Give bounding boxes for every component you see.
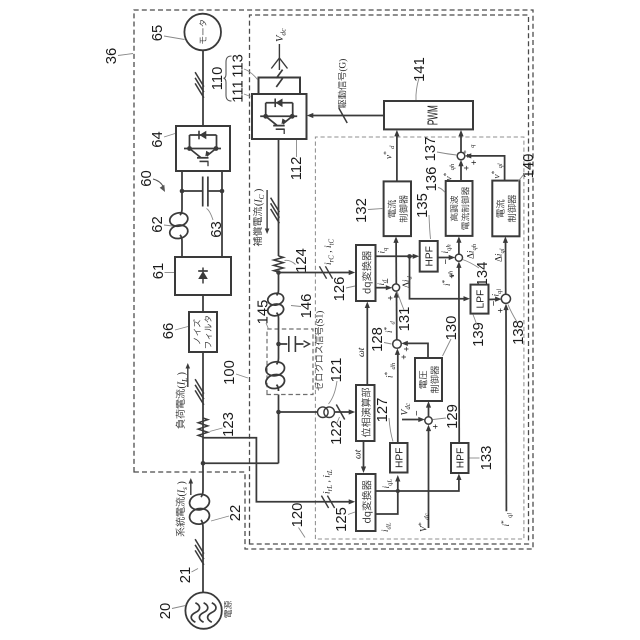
svg-text:Δiql: Δiql xyxy=(494,246,506,262)
svg-text:iqL: iqL xyxy=(381,477,393,489)
svg-text:64: 64 xyxy=(150,131,166,147)
svg-text:136: 136 xyxy=(424,167,440,192)
current controller box 140 xyxy=(492,181,519,237)
wire: iq branch from dq126 xyxy=(376,255,417,257)
svg-text:ωt: ωt xyxy=(354,449,364,459)
current transformer 121 (double circle) xyxy=(318,407,329,418)
frame: dashed box 100 (active filter unit 100) xyxy=(250,15,529,544)
svg-text:+: + xyxy=(402,346,412,351)
noise filter box 66 xyxy=(189,312,217,352)
svg-text:36: 36 xyxy=(104,48,120,64)
wire: delta-iql from 138 to current controller 140 xyxy=(505,240,507,295)
node: junction dot at CT branch xyxy=(276,410,281,415)
svg-text:Δiqh: Δiqh xyxy=(466,242,478,259)
svg-text:66: 66 xyxy=(161,323,177,339)
svg-text:iql: iql xyxy=(491,287,503,297)
node: junction dot for current sense tap xyxy=(276,270,281,275)
svg-text:LPF: LPF xyxy=(476,290,487,309)
source 20 (AC power source circle) xyxy=(185,592,221,628)
LPF box 139 xyxy=(471,285,489,314)
svg-text:120: 120 xyxy=(290,503,306,528)
svg-text:Vdc: Vdc xyxy=(275,26,288,42)
label 負荷電流 (IL) load current with arrow xyxy=(176,389,185,428)
svg-text:v* ql: v* ql xyxy=(490,161,504,179)
svg-text:130: 130 xyxy=(444,316,460,341)
svg-text:+: + xyxy=(496,308,506,313)
label 補償電流 (IC) compensation current with arrow xyxy=(253,207,262,246)
wire: main bus from source to motor xyxy=(202,527,204,592)
svg-text:HPF: HPF xyxy=(456,448,467,468)
svg-text:62: 62 xyxy=(150,216,166,232)
HPF box 135 xyxy=(420,241,438,272)
svg-text:(G): (G) xyxy=(338,59,348,72)
svg-text:63: 63 xyxy=(209,221,225,237)
wire: v*qh from 136 to junction 137 xyxy=(460,163,462,181)
wire: V*dc reference into junction 129 xyxy=(428,428,430,528)
wire: iqh from HPF135 to junction 134 xyxy=(438,257,453,259)
svg-text:139: 139 xyxy=(471,322,487,347)
svg-text:132: 132 xyxy=(354,198,370,223)
label 系統電流 (Is) grid current with arrow xyxy=(176,497,185,536)
wire: DC link rails between 61 and 64 xyxy=(181,241,183,257)
svg-text:+: + xyxy=(462,165,472,170)
svg-text:i* d: i* d xyxy=(382,319,396,333)
dq converter box 126 xyxy=(356,245,376,301)
wire: omega-t output to dq125 with arrow xyxy=(363,441,365,470)
svg-text:i* ql: i* ql xyxy=(499,511,513,527)
wire: Vdc measured into junction 129 xyxy=(402,419,422,421)
svg-text:113: 113 xyxy=(231,54,247,78)
wire: v*d from 132 to PWM xyxy=(396,133,398,181)
inductor inside box 145 on compensation line xyxy=(277,385,279,391)
inductor 22 (grid-side reactor) on bus xyxy=(201,520,203,527)
node: bus junction dot to active filter xyxy=(201,461,206,466)
wire: load current sense into dq125 xyxy=(203,438,353,502)
HPF box 133 xyxy=(451,443,469,473)
svg-text:60: 60 xyxy=(139,170,155,186)
svg-text:141: 141 xyxy=(412,57,428,82)
single slash on zero-cross signal wire xyxy=(336,405,344,420)
wire: delta-iqh from 134 to harmonic controller 136 xyxy=(458,239,460,254)
svg-text:ωt: ωt xyxy=(357,347,367,357)
svg-text:V* dc: V* dc xyxy=(417,511,431,532)
PWM box 141 xyxy=(384,101,473,129)
wire: omega-t output to dq126 with arrow xyxy=(366,305,368,385)
node: junction dot in box 145 xyxy=(276,342,281,347)
wire: 128 to 131 xyxy=(396,294,398,340)
svg-text:111: 111 xyxy=(231,80,247,103)
svg-text:v* qh: v* qh xyxy=(442,162,456,181)
svg-text:146: 146 xyxy=(299,294,315,319)
capacitor + zero-cross tap in box 145 xyxy=(279,343,288,345)
inductor 62 (DC reactor) on top rail xyxy=(180,235,182,241)
junction circle 128 xyxy=(393,340,402,349)
wire: delta-id from 131 into current controller 132 xyxy=(395,240,397,284)
frame: outer dashed box 36 (L-shaped boundary of power conversion system 36) xyxy=(134,10,533,549)
svg-text:−: − xyxy=(489,300,500,306)
svg-text:+: + xyxy=(431,424,441,429)
label 駆動信号(G) drive signal xyxy=(338,72,346,108)
svg-text:irL , itL: irL , itL xyxy=(323,467,334,494)
svg-text:irC , itC: irC , itC xyxy=(324,237,335,265)
svg-text:125: 125 xyxy=(334,507,350,532)
inverter box 64 with IGBT symbol xyxy=(176,126,230,171)
svg-text:−: − xyxy=(412,410,423,416)
dashed box 145 (LC trap filter) xyxy=(267,329,313,395)
svg-text:65: 65 xyxy=(150,25,166,41)
phase calculator box 127 位相演算部 xyxy=(356,385,375,441)
svg-text:−: − xyxy=(441,258,452,264)
wire: CT branch down to phase calculator xyxy=(279,411,318,413)
junction circle 137 xyxy=(457,152,465,160)
node: crossing dot xyxy=(396,489,400,493)
wire: compensation current sense into dq126 xyxy=(279,272,353,274)
label 電源 (power source) xyxy=(224,601,232,618)
capacitor 63 between rails xyxy=(182,190,203,192)
harmonic current controller box 136 xyxy=(446,181,473,236)
wire: iqL output of dq125 to HPF 133 xyxy=(376,477,459,492)
voltage controller box 130 xyxy=(415,358,442,401)
svg-text:124: 124 xyxy=(294,248,310,273)
motor 65 circle xyxy=(184,14,221,51)
svg-text:61: 61 xyxy=(151,263,167,279)
svg-text:v* d: v* d xyxy=(382,143,396,159)
HPF box 127 xyxy=(390,443,408,473)
svg-text:HPF: HPF xyxy=(425,246,436,266)
wire: v*q from 137 to PWM xyxy=(460,133,462,152)
wire: 129 into voltage controller 130 xyxy=(428,404,430,417)
svg-text:(S1): (S1) xyxy=(315,311,325,327)
capacitor box 113 with DC-link capacitor symbol xyxy=(259,78,301,95)
wire: i*dh from HPF127 to junction 128 xyxy=(397,352,399,444)
junction circle 131 xyxy=(392,284,399,291)
svg-text:123: 123 xyxy=(221,412,237,437)
svg-text:21: 21 xyxy=(178,567,194,583)
svg-text:+: + xyxy=(399,354,409,359)
svg-text:+: + xyxy=(469,160,479,165)
current controller box 132 xyxy=(384,181,411,236)
svg-text:121: 121 xyxy=(329,358,345,383)
svg-text:100: 100 xyxy=(222,360,238,385)
wire: idL output of dq125 to HPF 127 xyxy=(376,478,398,514)
wire: iq to LPF 139 xyxy=(410,256,468,298)
svg-text:133: 133 xyxy=(479,446,495,471)
svg-text:22: 22 xyxy=(228,505,244,521)
svg-text:+: + xyxy=(386,295,396,300)
node: iq branch dot xyxy=(407,254,412,259)
svg-text:Vdc: Vdc xyxy=(400,401,412,416)
inductor 146 on compensation line xyxy=(277,313,279,318)
svg-text:iq: iq xyxy=(377,245,389,253)
svg-text:(IC ): (IC ) xyxy=(254,189,267,206)
svg-text:HPF: HPF xyxy=(395,448,406,468)
three-phase slash marks on bus near source xyxy=(195,550,204,564)
wire: 130 output up into junction 128 xyxy=(404,343,428,358)
three-phase slash marks on bus before noise filter xyxy=(195,390,204,404)
wire: PWM drive signal line to inverter 112 xyxy=(310,115,384,117)
svg-text:131: 131 xyxy=(397,307,413,332)
wire: id from dq126 into 131 xyxy=(376,287,390,289)
resistor 124 on compensation line xyxy=(274,256,284,272)
svg-text:idL: idL xyxy=(380,520,392,532)
three-phase slash marks on compensation line xyxy=(271,209,280,223)
wire: v*ql from 140 up to junction 137 xyxy=(468,156,505,181)
single slash on drive signal wire xyxy=(339,108,347,123)
wire: i*ql reference line to junction 138 xyxy=(505,307,507,512)
svg-text:112: 112 xyxy=(289,157,305,181)
wire: iql from LPF to junction 138 xyxy=(489,298,499,300)
wire: filter connection from bus junction down and right xyxy=(203,462,279,464)
junction circle 138 xyxy=(501,294,510,303)
IGBT + freewheel diode icon in box 64 xyxy=(184,131,221,167)
svg-text:i* dh: i* dh xyxy=(383,361,397,378)
svg-text:129: 129 xyxy=(445,404,461,429)
svg-text:PWM: PWM xyxy=(425,105,441,125)
svg-text:Δid: Δid xyxy=(401,274,413,288)
svg-text:iqh: iqh xyxy=(440,242,452,253)
svg-text:126: 126 xyxy=(332,277,348,302)
svg-text:134: 134 xyxy=(475,262,491,287)
dq converter box 125 xyxy=(356,474,376,531)
junction circle 134 xyxy=(455,254,462,261)
svg-text:138: 138 xyxy=(511,320,527,345)
wire: i*qh from HPF133 to junction 134 xyxy=(458,265,460,444)
svg-text:+: + xyxy=(447,273,457,278)
svg-text:(Is ): (Is ) xyxy=(177,481,190,496)
wire: Vdc output arrow with open chevron xyxy=(278,44,280,70)
inverter box 112 with IGBT symbol xyxy=(252,94,307,139)
rectifier box 61 with diode symbol xyxy=(175,257,231,295)
svg-text:135: 135 xyxy=(415,193,431,218)
junction circle 129 xyxy=(425,417,432,424)
svg-text:137: 137 xyxy=(423,137,439,162)
label ゼロクロス信号(S1) zero-cross signal xyxy=(315,327,324,390)
svg-text:20: 20 xyxy=(158,603,174,619)
frame: dashed box 120 (controller 120) xyxy=(315,137,524,539)
three-phase slash marks on bus before motor xyxy=(195,83,204,97)
resistor 123 (line impedance) on bus xyxy=(198,418,208,437)
